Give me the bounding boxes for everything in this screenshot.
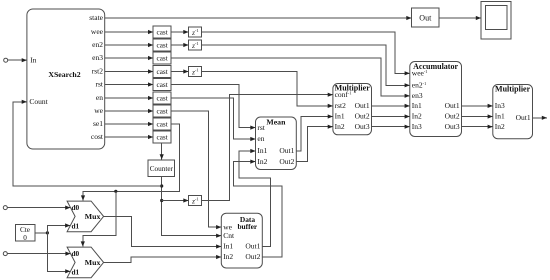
wire cast -> z-1 (en2) xyxy=(171,43,188,47)
wire cast(se1) -> Mux1 sel xyxy=(81,124,179,201)
svg-text:d1: d1 xyxy=(72,221,80,230)
svg-text:cast: cast xyxy=(157,94,168,102)
wire cast(we) -> Data buffer.we xyxy=(171,111,221,229)
svg-text:In1: In1 xyxy=(223,242,233,251)
svg-text:cast: cast xyxy=(157,107,168,115)
cast block (en) xyxy=(153,92,171,104)
svg-text:Counter: Counter xyxy=(150,165,174,173)
wire Multiplier.Out3 -> Accumulator.In3 xyxy=(372,125,410,129)
wire wee -> cast xyxy=(105,30,154,34)
Counter xyxy=(148,160,175,177)
svg-text:Out1: Out1 xyxy=(355,101,370,110)
svg-text:Out1: Out1 xyxy=(245,242,260,251)
svg-text:we: we xyxy=(94,106,103,115)
svg-text:rst2: rst2 xyxy=(335,101,347,110)
svg-text:cast: cast xyxy=(157,28,168,36)
cast block (cost) xyxy=(153,131,171,143)
wire z(wee) -> Accumulator.wee xyxy=(202,32,410,75)
wire cast(rst) -> Mean.rst xyxy=(171,85,255,130)
wire Mux1 -> Data buffer.In1 xyxy=(104,216,222,248)
svg-text:en3: en3 xyxy=(412,91,423,100)
cast block (se1) xyxy=(153,118,171,130)
cast block (wee) xyxy=(153,26,171,38)
svg-text:Mean: Mean xyxy=(266,117,286,126)
delay z-1 (wee) xyxy=(189,27,202,37)
svg-text:Mux: Mux xyxy=(85,258,101,267)
wire Mean.Out2 -> Multiplier.In2 xyxy=(296,125,333,162)
wire Accumulator.Out1 -> Multiplier2 xyxy=(462,104,493,108)
svg-text:In1: In1 xyxy=(257,146,267,155)
svg-text:Out1: Out1 xyxy=(516,113,531,122)
svg-text:cast: cast xyxy=(157,81,168,89)
constant Cte 0 xyxy=(15,224,35,242)
svg-text:d1: d1 xyxy=(72,267,80,276)
wire se1 -> cast xyxy=(105,122,154,126)
svg-text:en2: en2 xyxy=(92,40,103,49)
svg-text:d0: d0 xyxy=(72,203,80,212)
svg-text:In3: In3 xyxy=(495,101,505,110)
junction se1 branch xyxy=(114,190,117,193)
svg-text:se1: se1 xyxy=(93,119,103,128)
scope display xyxy=(481,2,511,40)
delay z-1 (counter delay) xyxy=(189,196,202,206)
svg-text:0: 0 xyxy=(23,234,27,242)
svg-text:cast: cast xyxy=(157,54,168,62)
wire Mux2 -> Data buffer.In2 xyxy=(104,255,222,263)
wire cast(cost) -> Counter xyxy=(160,143,164,160)
wire Cte -> junction xyxy=(35,232,48,234)
mux Mux2 xyxy=(67,247,104,278)
junction Counter/z input xyxy=(160,199,163,202)
wire Multiplier2.Out1 xyxy=(533,116,548,120)
svg-text:In3: In3 xyxy=(412,122,422,131)
delay z-1 (rst2) xyxy=(189,67,202,77)
wire state -> Out xyxy=(105,16,412,20)
outport Out xyxy=(412,8,440,27)
svg-text:Out2: Out2 xyxy=(245,252,260,261)
input port In (circle) xyxy=(4,58,8,62)
svg-text:rst: rst xyxy=(96,80,104,89)
subsystem XSearch2 xyxy=(27,9,105,149)
wire Out -> Scope xyxy=(439,16,481,20)
wire en -> cast xyxy=(105,96,154,100)
svg-text:cast: cast xyxy=(157,68,168,76)
wire Data buffer.Out1 -> Mean.In1 xyxy=(239,149,271,247)
svg-text:In1: In1 xyxy=(412,101,422,110)
wire Multiplier.Out1 -> Accumulator.In1 xyxy=(372,104,410,108)
svg-text:Out1: Out1 xyxy=(445,101,460,110)
svg-text:Out: Out xyxy=(419,13,432,22)
svg-text:rst2: rst2 xyxy=(92,67,104,76)
svg-text:state: state xyxy=(89,13,103,22)
wire z(en2) -> Accumulator.en2 xyxy=(202,45,410,87)
svg-text:In2: In2 xyxy=(223,252,233,261)
cast block (rst2) xyxy=(153,66,171,78)
svg-text:In2: In2 xyxy=(335,122,345,131)
wire en3 -> cast xyxy=(105,56,154,60)
svg-text:In: In xyxy=(30,56,36,65)
wire z(rst2) -> Multiplier.rst2 xyxy=(202,72,333,109)
wire input -> Mux2.d0 xyxy=(7,252,70,256)
input port (circle) to Mux2.d0 xyxy=(3,252,7,256)
wire rst2 -> cast xyxy=(105,69,154,73)
junction Cte branch xyxy=(46,231,49,234)
wire Cte -> Mux1.d1 xyxy=(47,223,70,233)
wire feedback -> XSearch2.Count xyxy=(13,100,162,186)
svg-text:Out3: Out3 xyxy=(445,122,460,131)
svg-text:Out3: Out3 xyxy=(355,122,370,131)
svg-text:Cte: Cte xyxy=(20,226,30,234)
svg-text:In2: In2 xyxy=(495,122,505,131)
svg-text:Cnt: Cnt xyxy=(223,231,235,240)
wire cost -> cast xyxy=(105,135,154,139)
mux Mux1 xyxy=(67,201,104,232)
svg-text:en: en xyxy=(257,134,264,143)
svg-text:Out1: Out1 xyxy=(279,146,294,155)
svg-text:d0: d0 xyxy=(72,249,80,258)
subsystem Multiplier (1) xyxy=(333,84,372,135)
svg-text:In1: In1 xyxy=(335,112,345,121)
svg-text:cast: cast xyxy=(157,120,168,128)
input port (circle) to Mux1.d0 xyxy=(3,206,7,210)
svg-text:Out2: Out2 xyxy=(279,157,294,166)
svg-text:cast: cast xyxy=(157,133,168,141)
wire Multiplier.Out2 -> Accumulator.In2 xyxy=(372,114,410,118)
wire cast -> z-1 (wee) xyxy=(171,30,188,34)
svg-text:In2: In2 xyxy=(412,112,422,121)
wire Counter -> Data buffer.Cnt xyxy=(162,177,222,238)
subsystem Multiplier (2) xyxy=(493,85,533,139)
cast block (en2) xyxy=(153,39,171,51)
svg-text:Mux: Mux xyxy=(85,212,101,221)
junction Counter/Count feedback xyxy=(160,184,163,187)
svg-text:buffer: buffer xyxy=(237,222,257,231)
cast block (rst) xyxy=(153,79,171,91)
wire Data buffer.Out2 -> Mean.In2 xyxy=(233,160,282,258)
svg-text:cost: cost xyxy=(91,132,104,141)
wire cast -> z-1 (rst2) xyxy=(171,69,188,73)
wire Cte -> Mux2.d1 xyxy=(47,233,70,274)
wire we -> cast xyxy=(105,109,154,113)
subsystem Mean xyxy=(256,117,297,170)
wire en2 -> cast xyxy=(105,43,154,47)
svg-text:Out2: Out2 xyxy=(355,112,370,121)
wire z -> Multiplier.conf xyxy=(202,93,333,201)
subsystem Accumulator xyxy=(410,62,462,137)
svg-text:Out2: Out2 xyxy=(445,112,460,121)
subsystem Data buffer xyxy=(221,213,262,268)
wire Accumulator.Out2 -> Multiplier2 xyxy=(462,114,493,118)
svg-text:en3: en3 xyxy=(92,53,103,62)
wire Counter -> z-1 xyxy=(162,198,189,202)
svg-text:rst: rst xyxy=(257,123,265,132)
wire input -> Mux1.d0 xyxy=(7,206,70,210)
wire se1 branch -> Mux2 sel xyxy=(81,191,116,246)
wire rst -> cast xyxy=(105,82,154,86)
wire cast(en) -> Mean.en xyxy=(171,98,255,141)
wire Mean.Out1 -> Multiplier.In1 xyxy=(296,114,333,151)
svg-text:Multiplier: Multiplier xyxy=(495,85,531,94)
svg-text:cast: cast xyxy=(157,41,168,49)
svg-text:In1: In1 xyxy=(495,112,505,121)
wire cast(en3) -> Accumulator.en3 xyxy=(171,58,410,98)
cast block (we) xyxy=(153,105,171,117)
delay z-1 (en2) xyxy=(189,40,202,50)
svg-text:Count: Count xyxy=(29,97,48,106)
svg-text:en: en xyxy=(96,93,103,102)
svg-text:In2: In2 xyxy=(257,157,267,166)
svg-text:wee: wee xyxy=(91,27,104,36)
cast block (en3) xyxy=(153,52,171,64)
wire Accumulator.Out3 -> Multiplier2 xyxy=(462,125,493,129)
svg-text:XSearch2: XSearch2 xyxy=(48,70,80,79)
wire In -> XSearch2.In xyxy=(8,58,27,62)
